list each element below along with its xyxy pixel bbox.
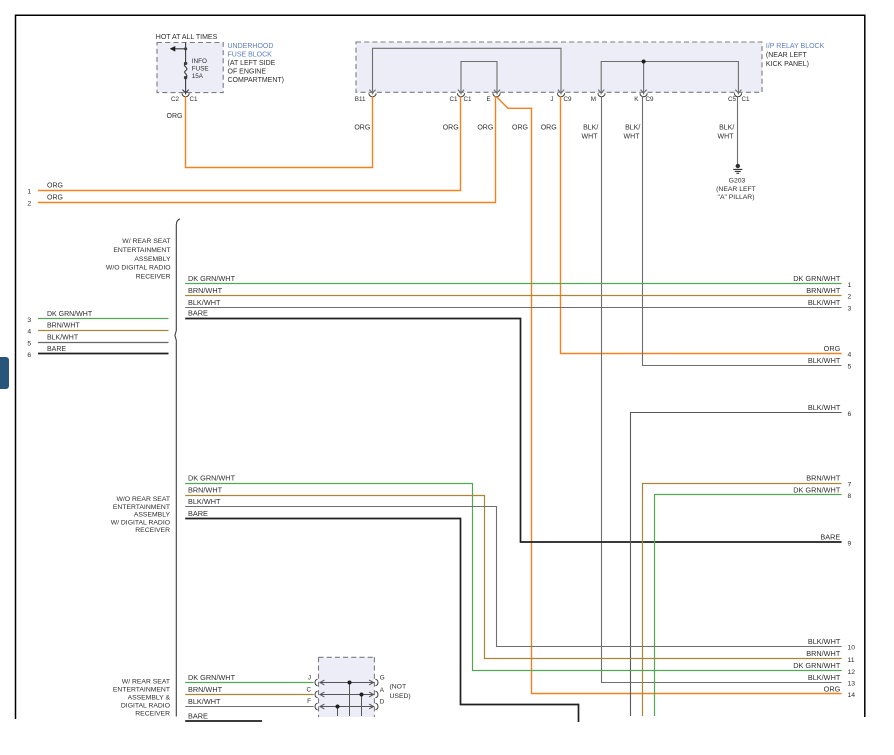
group2 wire BRN/WHT to right row 11 <box>185 496 841 659</box>
svg-text:5: 5 <box>27 340 31 347</box>
svg-text:DK GRN/WHT: DK GRN/WHT <box>47 311 93 318</box>
group3 wire BARE <box>185 720 262 722</box>
svg-text:BRN/WHT: BRN/WHT <box>188 286 223 295</box>
svg-text:M: M <box>591 96 596 103</box>
svg-text:ENTERTAINMENT: ENTERTAINMENT <box>113 504 170 511</box>
left wire 6 BARE <box>38 353 169 355</box>
relay internal wire B11 to J <box>369 48 564 94</box>
svg-text:ORG: ORG <box>47 183 63 190</box>
svg-text:2: 2 <box>848 294 852 301</box>
svg-text:BARE: BARE <box>188 711 208 720</box>
svg-text:1: 1 <box>848 282 852 289</box>
svg-text:ORG: ORG <box>443 124 459 131</box>
svg-text:BLK/WHT: BLK/WHT <box>808 637 841 646</box>
svg-text:BLK/WHT: BLK/WHT <box>47 334 79 341</box>
svg-text:INFO: INFO <box>192 58 207 65</box>
svg-text:WHT: WHT <box>582 134 599 141</box>
box pin cups left <box>315 679 318 710</box>
svg-text:6: 6 <box>848 411 852 418</box>
box internal row J-G <box>320 680 374 716</box>
svg-text:15A: 15A <box>192 73 204 80</box>
svg-text:I/P RELAY BLOCK: I/P RELAY BLOCK <box>766 43 825 50</box>
svg-text:HOT AT ALL TIMES: HOT AT ALL TIMES <box>156 34 218 41</box>
svg-text:RECEIVER: RECEIVER <box>135 527 170 534</box>
svg-text:9: 9 <box>848 541 852 548</box>
svg-text:RECEIVER: RECEIVER <box>136 273 171 280</box>
svg-text:BLK/: BLK/ <box>583 124 598 131</box>
svg-text:BLK/WHT: BLK/WHT <box>188 497 221 506</box>
group3 wire BLK/WHT to pin F <box>185 706 313 708</box>
svg-text:E: E <box>486 96 490 103</box>
svg-text:UNDERHOOD: UNDERHOOD <box>228 43 274 50</box>
group2 wire BARE to bottom <box>185 519 578 723</box>
svg-text:DK GRN/WHT: DK GRN/WHT <box>188 274 236 283</box>
svg-text:ORG: ORG <box>354 124 370 131</box>
relay pin cups <box>369 93 742 97</box>
svg-text:A: A <box>380 687 385 694</box>
svg-text:ORG: ORG <box>824 344 841 353</box>
svg-text:6: 6 <box>27 352 31 359</box>
svg-text:DK GRN/WHT: DK GRN/WHT <box>188 474 236 483</box>
ip relay block box <box>356 42 762 92</box>
group2 wire DK GRN/WHT to right row 12 <box>185 484 841 671</box>
svg-text:ENTERTAINMENT: ENTERTAINMENT <box>113 247 170 254</box>
svg-text:ASSEMBLY: ASSEMBLY <box>134 256 171 263</box>
bottom connector box <box>319 657 375 717</box>
fuse INFO 15A <box>183 63 189 94</box>
svg-text:C1: C1 <box>190 96 199 103</box>
box internal row C-A <box>320 692 374 716</box>
svg-text:11: 11 <box>848 657 855 664</box>
svg-text:BLK/WHT: BLK/WHT <box>188 697 221 706</box>
junction dot <box>184 47 187 50</box>
left wire 4 BRN/WHT <box>38 330 169 332</box>
feed wire into fuse <box>185 43 187 64</box>
svg-text:C9: C9 <box>564 96 573 103</box>
wire ORG relay J to right row 4 <box>561 96 842 353</box>
svg-text:BARE: BARE <box>47 346 66 353</box>
wire ORG relay E branch to right row 14 <box>497 97 842 694</box>
svg-text:WHT: WHT <box>624 134 641 141</box>
svg-text:W/O DIGITAL RADIO: W/O DIGITAL RADIO <box>106 265 171 272</box>
svg-text:(NEAR LEFT: (NEAR LEFT <box>716 186 756 193</box>
svg-text:KICK PANEL): KICK PANEL) <box>766 61 809 68</box>
wire ORG fuse C1 to relay B11 <box>186 96 373 167</box>
svg-text:W/ REAR SEAT: W/ REAR SEAT <box>122 679 170 686</box>
svg-text:J: J <box>550 96 553 103</box>
svg-text:C: C <box>306 687 311 694</box>
relay internal wire C1 to E <box>458 62 500 95</box>
group1 wire DK GRN/WHT to right row 1 <box>185 283 841 285</box>
svg-text:ORG: ORG <box>541 124 557 131</box>
svg-text:W/ REAR SEAT: W/ REAR SEAT <box>122 238 170 245</box>
svg-text:3: 3 <box>27 317 31 324</box>
svg-text:BLK/WHT: BLK/WHT <box>808 673 841 682</box>
relay internal wire M to C5 with K branch <box>598 62 741 95</box>
svg-text:ENTERTAINMENT: ENTERTAINMENT <box>113 687 170 694</box>
svg-text:DK GRN/WHT: DK GRN/WHT <box>793 485 841 494</box>
svg-text:ORG: ORG <box>512 124 528 131</box>
svg-text:4: 4 <box>848 352 852 359</box>
group1 wire BLK/WHT to right row 3 <box>185 307 841 309</box>
svg-text:C1: C1 <box>464 96 473 103</box>
brace <box>175 219 180 717</box>
svg-text:BRN/WHT: BRN/WHT <box>188 685 223 694</box>
wire ORG relay C1 to left row 1 <box>38 96 461 190</box>
svg-text:BRN/WHT: BRN/WHT <box>806 474 841 483</box>
svg-text:G203: G203 <box>729 177 746 184</box>
wire BLK/WHT relay K to right row 5 <box>643 96 842 365</box>
svg-text:J: J <box>308 675 311 682</box>
svg-text:"A" PILLAR): "A" PILLAR) <box>718 194 755 201</box>
group1 wire BRN/WHT to right row 2 <box>185 295 841 297</box>
svg-text:FUSE BLOCK: FUSE BLOCK <box>228 51 273 58</box>
svg-text:DK GRN/WHT: DK GRN/WHT <box>188 673 236 682</box>
svg-text:DK GRN/WHT: DK GRN/WHT <box>793 661 841 670</box>
svg-text:BLK/: BLK/ <box>625 124 640 131</box>
svg-text:FUSE: FUSE <box>192 66 209 73</box>
wire BLK/WHT relay M to right row 13 <box>602 96 842 682</box>
svg-text:BRN/WHT: BRN/WHT <box>806 286 841 295</box>
wire BLK/WHT relay C5 to ground <box>737 96 739 164</box>
svg-text:BARE: BARE <box>188 509 208 518</box>
svg-text:ASSEMBLY: ASSEMBLY <box>134 512 171 519</box>
svg-text:1: 1 <box>27 189 31 196</box>
svg-text:DIGITAL RADIO: DIGITAL RADIO <box>121 703 170 710</box>
svg-text:ORG: ORG <box>167 113 183 120</box>
svg-text:COMPARTMENT): COMPARTMENT) <box>228 77 285 84</box>
wire 8 DK GRN/WHT from bottom <box>655 495 842 717</box>
svg-text:(AT LEFT SIDE: (AT LEFT SIDE <box>228 60 276 67</box>
box internal row F-D <box>320 704 374 716</box>
svg-text:13: 13 <box>848 681 856 688</box>
svg-text:G: G <box>380 675 385 682</box>
svg-text:(NOT: (NOT <box>390 684 407 691</box>
branch arrow left <box>174 48 186 50</box>
wire 7 BRN/WHT from bottom <box>643 484 842 717</box>
svg-text:BARE: BARE <box>820 532 840 541</box>
svg-text:3: 3 <box>848 306 852 313</box>
svg-text:ORG: ORG <box>824 684 841 693</box>
svg-text:ORG: ORG <box>477 124 493 131</box>
group1 wire BARE to right row 9 <box>185 319 841 543</box>
svg-text:10: 10 <box>848 645 856 652</box>
svg-text:2: 2 <box>27 201 31 208</box>
svg-text:USED): USED) <box>390 693 411 700</box>
svg-text:BLK/WHT: BLK/WHT <box>808 403 841 412</box>
svg-text:BARE: BARE <box>188 309 208 318</box>
svg-text:14: 14 <box>848 692 856 699</box>
svg-text:BRN/WHT: BRN/WHT <box>188 486 223 495</box>
svg-text:BLK/WHT: BLK/WHT <box>188 298 221 307</box>
left wire 3 DK GRN/WHT <box>38 318 169 320</box>
svg-text:C1: C1 <box>742 96 751 103</box>
group3 wire DK GRN/WHT to pin J <box>185 682 313 684</box>
svg-text:ORG: ORG <box>47 195 63 202</box>
svg-text:OF ENGINE: OF ENGINE <box>228 69 267 76</box>
group2 wire BLK/WHT to right row 10 <box>185 507 841 647</box>
svg-text:C2: C2 <box>171 96 180 103</box>
svg-text:DK GRN/WHT: DK GRN/WHT <box>793 274 841 283</box>
svg-text:RECEIVER: RECEIVER <box>135 711 170 718</box>
svg-text:W/O REAR SEAT: W/O REAR SEAT <box>117 496 171 503</box>
svg-text:8: 8 <box>848 493 852 500</box>
svg-text:BRN/WHT: BRN/WHT <box>806 649 841 658</box>
left navigation tab <box>0 357 9 389</box>
svg-text:7: 7 <box>848 481 852 488</box>
svg-text:B11: B11 <box>355 96 366 103</box>
junction dot K <box>642 60 646 64</box>
svg-text:12: 12 <box>848 669 856 676</box>
svg-text:C5: C5 <box>728 96 737 103</box>
svg-text:F: F <box>307 698 311 705</box>
group3 wire BRN/WHT to pin C <box>185 694 313 696</box>
svg-text:K: K <box>634 96 639 103</box>
left wire 5 BLK/WHT <box>38 342 169 344</box>
svg-text:BLK/WHT: BLK/WHT <box>808 356 841 365</box>
svg-text:WHT: WHT <box>718 134 735 141</box>
svg-text:BRN/WHT: BRN/WHT <box>47 323 80 330</box>
pin cup fuse C1 <box>182 93 189 97</box>
underhood fuse block box <box>157 43 223 93</box>
box pin cups right <box>375 679 378 710</box>
wire ORG relay E to left row 2 <box>38 96 496 202</box>
svg-text:5: 5 <box>848 364 852 371</box>
svg-text:(NEAR LEFT: (NEAR LEFT <box>766 52 808 59</box>
svg-text:W/ DIGITAL RADIO: W/ DIGITAL RADIO <box>111 519 170 526</box>
svg-text:D: D <box>380 699 385 706</box>
wire 6 BLK/WHT from bottom <box>631 413 842 717</box>
svg-text:C9: C9 <box>646 96 655 103</box>
svg-text:BLK/: BLK/ <box>719 124 734 131</box>
svg-text:C1: C1 <box>449 96 458 103</box>
svg-text:ASSEMBLY &: ASSEMBLY & <box>128 695 171 702</box>
svg-text:4: 4 <box>27 329 31 336</box>
ground G203 <box>736 164 740 168</box>
svg-text:BLK/WHT: BLK/WHT <box>808 298 841 307</box>
